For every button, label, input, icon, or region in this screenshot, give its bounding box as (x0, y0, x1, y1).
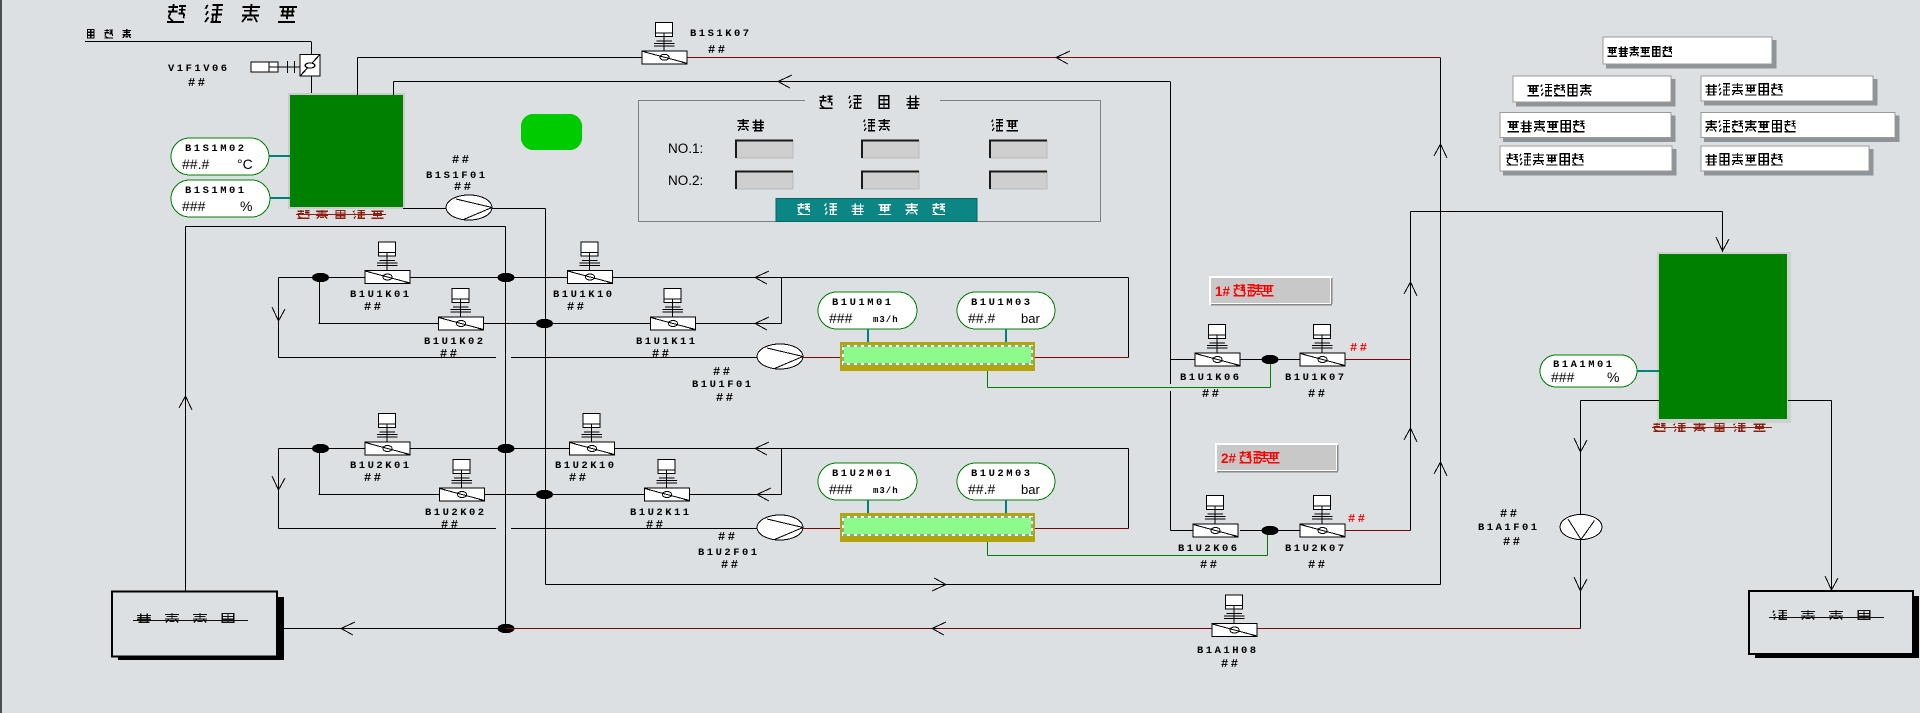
svg-text:##: ## (441, 518, 460, 532)
label 超滤水箱液位 under tank2 (struck red) (1654, 423, 1766, 431)
svg-text:##: ## (646, 518, 665, 532)
panel title 超滤膜组 (820, 95, 920, 108)
wire manifold 1a (279, 277, 1129, 279)
svg-text:##.#: ##.# (968, 310, 995, 326)
flow arrows down to blend line (1574, 438, 1587, 452)
wire module1 outlet riser to manifold 1a (1128, 278, 1130, 358)
svg-text:bar: bar (1021, 482, 1040, 497)
svg-text:V1F1V06: V1F1V06 (168, 63, 230, 75)
pump B1U2F01 (757, 515, 803, 540)
wire left riser to 中水水箱 (185, 227, 187, 592)
svg-text:B1A1H08: B1A1H08 (1197, 645, 1259, 657)
button 主流程报警 (1513, 76, 1671, 102)
label 自来水 (87, 29, 131, 38)
svg-text:°C: °C (237, 156, 253, 172)
membrane module 1 housing (840, 342, 1035, 371)
svg-text:B1U2K06: B1U2K06 (1178, 543, 1240, 555)
flow arrow into brine tank (1825, 576, 1838, 590)
wire B1U1K07 outlet dark red (1345, 359, 1411, 361)
svg-text:B1S1M01: B1S1M01 (185, 185, 247, 197)
button 控制系统报警 (1603, 37, 1772, 64)
flow arrow manifold 2b (757, 488, 771, 501)
wire module2 outlet dark red (1035, 528, 1129, 530)
stadium B1A1M01 level (1540, 355, 1637, 387)
stadium B1S1M01 level (171, 180, 270, 217)
wire loop top header (186, 226, 506, 228)
svg-text:%: % (1607, 369, 1619, 385)
svg-text:##: ## (1350, 341, 1369, 355)
wire feed drop to B1U1K06 (1170, 82, 1172, 385)
button 超滤功能选择 (776, 199, 977, 222)
flow arrow to 中水水箱 (341, 622, 355, 635)
column header 清洗 (992, 120, 1018, 131)
pump B1A1F01 vertical (1560, 515, 1602, 540)
label 浓水水箱 (struck) (1773, 610, 1870, 619)
svg-text:##: ## (716, 391, 735, 405)
wire module2 permeate green (987, 542, 989, 556)
junction dots train2 (312, 444, 329, 453)
wire riser to product tank (K07 collector) (1410, 212, 1412, 531)
wire bottom drain dark red (506, 628, 1581, 630)
flow arrow manifold 1b (755, 317, 769, 330)
pump B1U1F01 (757, 344, 803, 369)
svg-text:B1S1K07: B1S1K07 (690, 28, 752, 40)
svg-text:##: ## (188, 76, 207, 90)
button 钠滤系统报警 (1701, 76, 1873, 101)
panel 超滤膜组 frame (639, 101, 1101, 222)
svg-text:##: ## (1202, 387, 1221, 401)
button 超滤系统报警 (1500, 146, 1672, 171)
svg-text:B1S1M02: B1S1M02 (185, 143, 247, 155)
svg-text:###: ### (829, 310, 853, 326)
lamp cip no2 (990, 172, 1047, 190)
svg-text:NO.1:: NO.1: (668, 141, 703, 156)
column header 运行 (738, 119, 764, 131)
svg-text:B1U1M03: B1U1M03 (971, 297, 1033, 309)
flow arrow down loop1 (272, 307, 285, 321)
svg-text:##: ## (1503, 535, 1522, 549)
svg-text:##: ## (452, 153, 471, 167)
svg-text:B1U1K07: B1U1K07 (1285, 372, 1347, 384)
connector B1U1M01 to module1 (867, 329, 869, 342)
svg-text:##: ## (708, 43, 727, 57)
svg-text:##: ## (364, 471, 383, 485)
svg-text:##: ## (440, 347, 459, 361)
svg-text:##: ## (364, 300, 383, 314)
box 中水水箱 (118, 597, 284, 660)
wire pump B1U2F01 to module2 dark red (803, 528, 840, 530)
lamp cip no1 (990, 141, 1047, 159)
svg-text:##: ## (1200, 558, 1219, 572)
flow arrow manifold 2a (755, 442, 769, 455)
svg-text:##: ## (1308, 558, 1327, 572)
svg-text:##: ## (1221, 657, 1240, 671)
connector B1S1M02 to tank (269, 155, 290, 157)
membrane module 2 housing (840, 513, 1035, 542)
wire dark red B1S1K07 to right riser (687, 57, 1440, 59)
button 1#超滤急停 (1210, 277, 1331, 304)
wire B1U2K07 outlet dark red (1345, 530, 1411, 532)
wire riser 1a-right to 1b (781, 278, 783, 324)
connector B1A1M01 to tank2 (1637, 370, 1659, 372)
wire riser 2a-right to 2b (781, 449, 783, 495)
box 浓水水箱 (1755, 596, 1919, 658)
valve B1S1K07 (642, 22, 687, 64)
wire bottom collector to riser 1440 (546, 584, 1441, 586)
valve B1U1K06 (1195, 325, 1240, 367)
wire top distributor to tank2 (1411, 211, 1723, 213)
svg-text:NO.2:: NO.2: (668, 173, 703, 188)
flow arrows riser 1440 (1434, 144, 1447, 158)
valve B1U1K11 (651, 289, 696, 331)
valve B1U1K02 (439, 289, 484, 331)
wire raw water inlet (85, 41, 311, 43)
svg-text:##.#: ##.# (182, 156, 209, 172)
wire between B1U1K06 and B1U1K07 (1240, 359, 1300, 361)
wire permeate riser x=1440 (1440, 58, 1442, 585)
svg-text:##: ## (1348, 512, 1367, 526)
lamp rinse no1 (862, 141, 919, 159)
svg-text:B1U1K06: B1U1K06 (1180, 372, 1242, 384)
button 反渗透系统报警 (1701, 113, 1895, 138)
junction dot between K06 K07 train2 (1262, 526, 1279, 535)
button 2#超滤急停 (1216, 444, 1337, 471)
flow arrow bottom collector (932, 578, 946, 591)
valve B1U2K10 (570, 414, 615, 456)
flow arrow on backwash line (1056, 51, 1070, 64)
wire loop2 left leg (278, 449, 280, 529)
flow arrow down loop2 (272, 476, 285, 490)
svg-text:m3/h: m3/h (873, 486, 899, 496)
wire feed to B1U2K06 (1171, 530, 1196, 532)
svg-text:##: ## (721, 558, 740, 572)
junction dots train1 (312, 273, 329, 282)
svg-text:##: ## (652, 347, 671, 361)
wire tank2 bottom right stub (1788, 400, 1832, 402)
svg-text:B1A1F01: B1A1F01 (1478, 522, 1540, 534)
wire loop1 bottom to pump (279, 357, 497, 359)
flow arrow up on left riser (179, 396, 192, 410)
column header 冲洗 (864, 119, 890, 131)
svg-text:B1U2M03: B1U2M03 (971, 468, 1033, 480)
lamp run no1 (736, 141, 793, 159)
wire pump B1U1F01 to module1 (dark red) (803, 357, 840, 359)
svg-text:##: ## (567, 300, 586, 314)
wire pump B1S1F01 discharge (492, 208, 546, 210)
junction dot between K06 K07 train1 (1262, 355, 1279, 364)
svg-text:B1U2M01: B1U2M01 (832, 468, 894, 480)
stadium B1U1M01 flow (818, 292, 917, 329)
wire tank2 bottom left stub (1581, 400, 1660, 402)
svg-text:##: ## (1308, 387, 1327, 401)
wire module1 outlet dark red (1035, 357, 1129, 359)
wire loop1 left leg (278, 278, 280, 358)
wire manifold 2a (279, 448, 1129, 450)
svg-text:##: ## (718, 530, 737, 544)
wire tank1 top to B1S1K07 (357, 58, 359, 96)
svg-text:###: ### (182, 198, 206, 214)
stadium B1U2M03 pressure (957, 463, 1055, 500)
wire tank1 top line to UF feed header (393, 82, 395, 96)
wire 中水水箱 drain line black (277, 628, 506, 630)
valve B1A1H08 (1212, 595, 1257, 637)
svg-text:##: ## (1500, 507, 1519, 521)
button 辅助系统报警 (1701, 146, 1869, 171)
svg-text:bar: bar (1021, 311, 1040, 326)
valve B1U2K02 (440, 460, 485, 502)
connector B1U2M03 to module2 (1005, 500, 1007, 513)
flow arrow into tank2 (1716, 237, 1729, 251)
tank 原水箱 (raw water tank) (288, 93, 405, 209)
wire module2 outlet riser to manifold 2a (1128, 449, 1130, 529)
label 原水箱液位 under tank1 (struck red) (298, 210, 384, 218)
valve B1U1K07 (1300, 325, 1345, 367)
svg-text:##: ## (454, 180, 473, 194)
connector B1S1M01 to tank (270, 197, 290, 199)
valve B1U2K07 (1300, 496, 1345, 538)
wire tank1 outlet to pump B1S1F01 (403, 208, 446, 210)
membrane module 1 core (843, 346, 1032, 364)
wire dot1a to 1b link (319, 278, 321, 324)
screen left edge line (0, 0, 2, 713)
flow arrows riser 1410 (1404, 282, 1417, 296)
wire valve to tank1 top (311, 76, 313, 95)
stadium B1U2M01 flow (818, 463, 917, 500)
wire module1 permeate green (987, 371, 989, 388)
svg-text:##.#: ##.# (968, 481, 995, 497)
flow arrow on feed header (778, 75, 792, 88)
svg-text:B1U1M01: B1U1M01 (832, 297, 894, 309)
valve B1U2K01 (365, 414, 410, 456)
svg-text:1#: 1# (1215, 284, 1231, 299)
membrane module 2 core (843, 517, 1032, 535)
valve B1U1K10 (568, 242, 613, 284)
title 超滤系统 (167, 4, 297, 22)
flow arrow bottom drain (932, 622, 946, 635)
svg-text:###: ### (1551, 369, 1575, 385)
svg-text:###: ### (829, 481, 853, 497)
valve B1U2K11 (645, 460, 690, 502)
wire loop2 bottom to pump (279, 528, 497, 530)
stadium B1U1M03 pressure (957, 292, 1055, 329)
wire center riser x=505 (505, 227, 507, 629)
pump B1S1F01 (446, 195, 492, 220)
svg-text:B1U1F01: B1U1F01 (692, 379, 754, 391)
wire manifold 1b (319, 323, 782, 325)
wire left riser into 中水水箱 box (185, 590, 187, 593)
svg-text:B1U2K07: B1U2K07 (1285, 543, 1347, 555)
lamp run no2 (736, 172, 793, 190)
label 中水水箱 (struck) (137, 613, 234, 622)
flow arrow manifold 1a (755, 271, 769, 284)
connector B1U1M03 to module1 (1005, 329, 1007, 342)
tank 超滤水箱 (product tank) (1657, 252, 1791, 423)
junction dot bottom drain (498, 624, 515, 633)
indicator green rounded (521, 114, 582, 150)
valve V1F1V06 body (251, 55, 320, 77)
svg-text:##: ## (569, 471, 588, 485)
svg-text:##: ## (713, 365, 732, 379)
svg-text:2#: 2# (1221, 451, 1237, 466)
svg-text:m3/h: m3/h (873, 315, 899, 325)
valve B1U1K01 (365, 242, 410, 284)
wire manifold 2b (319, 494, 782, 496)
wire dot2a link (319, 449, 321, 495)
stadium B1S1M02 temperature (171, 138, 269, 175)
valve B1U2K06 (1193, 496, 1238, 538)
connector B1U2M01 to module2 (867, 500, 869, 513)
wire between B1U2K06 and B1U2K07 (1240, 530, 1300, 532)
svg-text:%: % (240, 198, 252, 214)
lamp rinse no2 (862, 172, 919, 190)
button 生化系统报警 (1500, 113, 1671, 138)
